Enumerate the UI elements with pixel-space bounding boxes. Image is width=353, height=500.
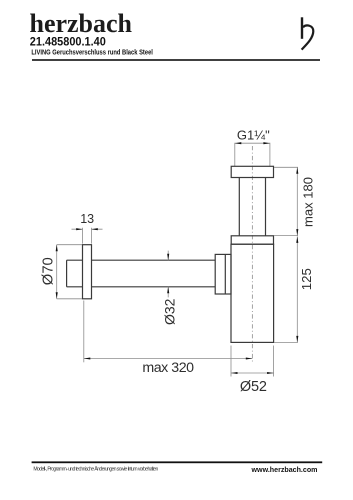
dimension Ø52 (body diameter) (231, 346, 274, 395)
article number 21.485800.1.40 (30, 35, 106, 48)
dimension 125 (body height) (274, 236, 314, 342)
dimension 13 (flange depth) (72, 212, 103, 244)
side union nut (outlet connection) (215, 254, 231, 294)
herzbach h logo mark (302, 17, 314, 49)
product title LIVING Geruchsverschluss rund Black Steel (31, 48, 152, 57)
svg-text:125: 125 (299, 268, 314, 290)
svg-text:G1¼": G1¼" (237, 128, 270, 143)
dimension Ø32 (pipe diameter) (161, 251, 177, 325)
horizontal outlet pipe (67, 260, 216, 287)
svg-text:Modell-, Programm- und technis: Modell-, Programm- und technische Änderu… (33, 465, 158, 472)
dimension Ø70 (flange diameter) (40, 245, 82, 299)
svg-text:LIVING Geruchsverschluss rund: LIVING Geruchsverschluss rund Black Stee… (31, 48, 152, 57)
dimension max 180 (inlet height) (274, 167, 315, 235)
footer disclaimer text (33, 465, 158, 472)
thread section G1 1/4 (thin line thread outline) (235, 143, 270, 166)
dimension max 320 (overall depth) (84, 301, 253, 377)
svg-text:21.485800.1.40: 21.485800.1.40 (30, 35, 106, 48)
footer rule (32, 461, 323, 463)
wall flange / escutcheon (83, 245, 92, 299)
svg-text:www.herzbach.com: www.herzbach.com (251, 466, 318, 474)
svg-text:max 180: max 180 (300, 177, 315, 227)
svg-text:herzbach: herzbach (30, 8, 133, 38)
top collar (flange under thread) (231, 166, 273, 177)
svg-text:Ø70: Ø70 (40, 257, 56, 285)
vertical inlet pipe (239, 178, 265, 236)
footer web address (251, 466, 318, 474)
top union nut on body (231, 236, 273, 244)
dimension G1 1/4" (235, 128, 270, 145)
header rule (32, 59, 320, 61)
trap body (cup) (231, 244, 274, 342)
svg-text:Ø52: Ø52 (240, 379, 267, 395)
svg-text:Ø32: Ø32 (161, 298, 177, 325)
centerline (vertical axis of trap body) (251, 146, 253, 362)
brand wordmark "herzbach" (30, 8, 133, 38)
svg-text:13: 13 (80, 212, 94, 226)
svg-text:max 320: max 320 (142, 360, 194, 376)
